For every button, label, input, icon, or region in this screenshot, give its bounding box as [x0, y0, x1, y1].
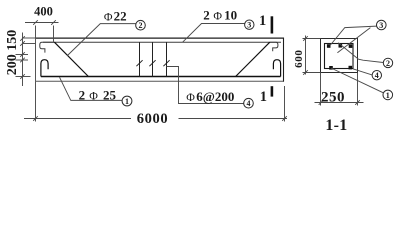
dimension 400 right extension: [53, 26, 55, 42]
svg-text:25: 25: [103, 87, 117, 102]
dimension 600 line: [305, 36, 307, 75]
dimension 400 left tick: [33, 20, 38, 25]
svg-text:10: 10: [224, 8, 237, 23]
leader from stirrup to balloon 4: [353, 69, 372, 75]
stirrup S3: [166, 42, 168, 76]
dimension 250 line: [315, 102, 364, 104]
dimension 400 line: [25, 22, 59, 24]
dimension 6000 right tick: [282, 116, 287, 121]
dimension 400 left extension: [35, 26, 37, 38]
dimension 400 right tick: [51, 20, 56, 25]
rebar 2 hook top-right: [270, 42, 278, 51]
svg-text:1: 1: [259, 13, 266, 29]
section balloon circle 1: [383, 90, 393, 100]
svg-text:Φ: Φ: [186, 90, 195, 104]
dimension 250 left extension: [320, 73, 322, 106]
bar dot bottom-right (rebar 1): [349, 66, 353, 70]
dimension 600 top tick: [303, 36, 308, 41]
section cut mark 1 top bar: [271, 16, 274, 33]
beam outline right edge: [283, 38, 285, 82]
dimension 250 left tick: [319, 100, 324, 105]
svg-text:4: 4: [247, 99, 251, 108]
bar dot top-left (rebar 3): [327, 44, 331, 48]
left dimension extension mid lower: [16, 59, 29, 61]
stirrup S2 tick: [149, 60, 155, 66]
left dimension tick 4: [20, 58, 25, 63]
svg-text:2: 2: [386, 59, 390, 68]
balloon circle 4: [244, 98, 254, 108]
dimension 600 top extension: [303, 38, 321, 40]
leader for label 2 phi10: [183, 24, 245, 43]
bar dot bottom-left (rebar 1): [329, 66, 333, 70]
rebar 1 hook bottom-right: [273, 60, 280, 77]
stirrup S2: [152, 42, 154, 76]
left dimension line: [22, 33, 24, 87]
left dimension tick 1: [20, 36, 25, 41]
rebar 2 bent-up diagonal left: [54, 42, 88, 76]
stirrup S1: [139, 42, 141, 76]
svg-text:Φ: Φ: [213, 9, 222, 23]
leader for label phi22: [67, 24, 135, 56]
dimension 6000 left extension: [35, 82, 37, 122]
section cut mark 1 bottom bar: [271, 86, 274, 96]
bar dot top-middle (rebar 2): [339, 44, 343, 48]
beam outline top edge: [35, 37, 284, 39]
left dimension tick 3: [20, 52, 25, 57]
svg-text:600: 600: [293, 50, 305, 68]
svg-text:1: 1: [260, 89, 267, 105]
left dimension extension at bottom bar: [16, 76, 31, 78]
section balloon circle 2: [383, 58, 392, 67]
leader for label phi6@200: [167, 67, 244, 104]
dimension 250 right extension: [357, 73, 359, 106]
rebar 1 hook bottom-left: [41, 60, 48, 77]
section stirrup outline: [325, 44, 354, 69]
rebar 3 top bar line: [43, 41, 281, 43]
beam outline bottom edge: [35, 80, 284, 82]
svg-text:1: 1: [125, 97, 129, 106]
dimension 600 bottom extension: [303, 72, 321, 74]
leader from top bars to balloon 3: [330, 26, 377, 45]
svg-text:200 150: 200 150: [5, 30, 20, 76]
beam outline left edge: [35, 38, 37, 82]
section concrete outline: [321, 39, 358, 73]
svg-text:4: 4: [375, 71, 379, 80]
left dimension extension at beam top: [23, 37, 36, 39]
dimension 6000 line right part: [179, 118, 288, 120]
svg-text:2: 2: [79, 87, 86, 102]
section balloon circle 4: [372, 71, 381, 80]
svg-text:3: 3: [247, 21, 251, 30]
dimension 6000 left tick: [33, 116, 38, 121]
stirrup S1 tick: [136, 60, 142, 66]
left dimension extension at top bar: [23, 43, 36, 45]
svg-text:3: 3: [379, 21, 383, 30]
balloon circle 2: [136, 20, 146, 30]
svg-text:1: 1: [386, 91, 390, 100]
svg-text:Φ: Φ: [104, 9, 113, 23]
rebar 2 bent-up diagonal right: [236, 42, 270, 76]
left dimension extension mid upper: [16, 54, 29, 56]
svg-text:6@200: 6@200: [196, 89, 234, 104]
left dimension tick 2: [20, 41, 25, 46]
left dimension tick 5: [20, 74, 25, 79]
leader from top-right bar to balloon 3: [337, 28, 370, 53]
svg-text:250: 250: [321, 90, 345, 106]
svg-text:2: 2: [139, 21, 143, 30]
dimension 250 right tick: [355, 100, 360, 105]
dimension 6000 line left part: [24, 118, 131, 120]
svg-text:Φ: Φ: [89, 88, 98, 102]
svg-text:400: 400: [34, 4, 53, 18]
dimension 6000 right extension: [284, 86, 286, 122]
dimension 600 bottom tick: [303, 70, 308, 75]
rebar 1 bottom bar line: [41, 76, 281, 78]
bar dot top-right (rebar 3): [349, 44, 353, 48]
balloon circle 1: [122, 96, 132, 106]
rebar 2 hook top-left: [40, 42, 55, 52]
leader from bottom bars to balloon 1: [331, 68, 383, 93]
leader for label 2 phi25: [60, 77, 123, 100]
leader from bent bar to balloon 2: [338, 43, 383, 63]
section balloon circle 3: [377, 20, 387, 30]
balloon circle 3: [245, 20, 254, 29]
svg-text:22: 22: [114, 8, 127, 23]
stirrup S3 tick: [163, 60, 169, 66]
svg-text:2: 2: [203, 8, 210, 23]
svg-text:6000: 6000: [137, 111, 168, 127]
svg-text:1-1: 1-1: [325, 117, 347, 134]
